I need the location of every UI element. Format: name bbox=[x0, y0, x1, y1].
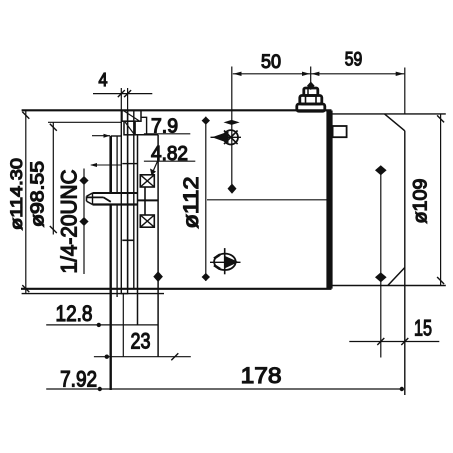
adapter plate bbox=[128, 110, 134, 288]
dim 4 extensions bbox=[120, 88, 122, 110]
dim 7.92 / 178 shared line bbox=[46, 388, 403, 390]
thick brush-plate bar bbox=[326, 111, 332, 289]
keyway ramp bbox=[104, 197, 111, 201]
dim ø112 line bbox=[205, 117, 207, 281]
shaft center stub inside tube bbox=[138, 199, 159, 201]
stud extension line bbox=[310, 67, 312, 83]
bottom extension: flange face bbox=[122, 294, 124, 357]
50 extension line through hole bbox=[231, 67, 233, 185]
bearing lower (X box) bbox=[140, 215, 154, 227]
rear housing top + ø109 top extension bbox=[333, 113, 446, 115]
rear housing top-right chamfer bbox=[385, 114, 405, 131]
shaft tip chamfers bbox=[87, 193, 93, 196]
terminal stud top bbox=[304, 88, 318, 96]
axis centerline bbox=[207, 199, 331, 201]
pilot boss face (thick) lower + extension bbox=[109, 206, 111, 391]
svg-text:15: 15 bbox=[414, 315, 432, 340]
bearing upper (X box) bbox=[140, 175, 154, 187]
dim 4.82 underline + leader bbox=[144, 160, 195, 162]
rear hole diamond upper bbox=[375, 165, 387, 175]
svg-text:23: 23 bbox=[131, 329, 151, 354]
svg-text:ø114.30: ø114.30 bbox=[7, 158, 26, 230]
counterbore step line lower bbox=[122, 239, 134, 241]
shaft top line bbox=[93, 192, 138, 194]
dim 15 line bbox=[349, 341, 439, 343]
counterbore step line upper bbox=[122, 163, 137, 165]
dim 50/59 line bbox=[233, 73, 405, 75]
boss second line lower bbox=[116, 206, 118, 298]
rear hole diamond lower bbox=[375, 272, 387, 282]
hub (bearing tube) top edge bbox=[136, 134, 159, 136]
dim ø114.30 line bbox=[25, 110, 27, 293]
pilot boss face (thick) upper bbox=[109, 136, 112, 192]
hatched block top (flange hub section) bbox=[122, 110, 141, 121]
shaft tip face bbox=[86, 196, 88, 201]
shaft chamfer edge bbox=[92, 193, 94, 205]
center mark diamond bbox=[228, 184, 237, 194]
flange plate bbox=[121, 110, 127, 293]
diamond on bearing tube wall bbox=[153, 271, 163, 282]
bearing tube right wall bbox=[157, 135, 159, 357]
svg-text:12.8: 12.8 bbox=[56, 301, 93, 326]
svg-text:1/4-20UNC: 1/4-20UNC bbox=[57, 169, 82, 273]
lower bolt hole symbol bbox=[214, 254, 236, 270]
svg-text:4: 4 bbox=[99, 70, 108, 90]
boss leader dash upper bbox=[92, 135, 110, 137]
terminal stud mid nut bbox=[300, 96, 322, 105]
terminal stud tip arrow bbox=[307, 82, 315, 91]
1/4-20UNC underline dimension line with diamonds bbox=[83, 169, 85, 275]
svg-text:50: 50 bbox=[261, 52, 281, 73]
motor body bottom line + left extension bbox=[21, 288, 332, 290]
step piece top bbox=[141, 117, 147, 135]
svg-text:178: 178 bbox=[241, 363, 282, 388]
terminal tab on bar bbox=[333, 126, 347, 137]
shaft bottom line bbox=[93, 203, 138, 205]
top line: ø114.30 extension + flange top + motor body top bbox=[22, 109, 332, 111]
dim 59 right extension bbox=[404, 68, 406, 114]
bearing tube left wall bbox=[137, 135, 139, 325]
flange plate bottom line + extension bbox=[22, 293, 164, 295]
svg-text:ø112: ø112 bbox=[180, 177, 203, 229]
rear bolt holes leader line bbox=[380, 167, 382, 358]
rear housing bottom-right chamfer bbox=[388, 268, 405, 286]
hatched block 2 bbox=[124, 121, 135, 135]
dim 4 line bbox=[93, 93, 152, 95]
rear housing bottom line + ø109 bottom extension bbox=[333, 285, 446, 287]
svg-text:ø98.55: ø98.55 bbox=[28, 161, 48, 227]
dim ø109 line bbox=[440, 114, 442, 286]
shaft keyway line bbox=[87, 196, 104, 198]
svg-text:59: 59 bbox=[345, 49, 363, 70]
tapped hole extension line bbox=[91, 164, 121, 166]
arrow diamond on body corner bbox=[224, 120, 240, 125]
svg-text:ø109: ø109 bbox=[411, 179, 432, 224]
dim ø98.55 line bbox=[52, 122, 54, 234]
dim 23 line bbox=[94, 356, 191, 358]
ø98.55 top extension bbox=[48, 121, 121, 123]
bearing inner race line bbox=[144, 187, 146, 215]
upper bolt hole symbol bbox=[224, 130, 238, 144]
terminal stud base bbox=[297, 104, 325, 111]
svg-text:7.92: 7.92 bbox=[60, 367, 97, 392]
dim 7.9 underline bbox=[144, 133, 190, 135]
boss horizontal top edge bbox=[111, 135, 122, 137]
boss second line upper bbox=[116, 136, 118, 192]
rear housing right edge + 178/15 extension bbox=[404, 131, 406, 395]
dim 12.8 line bbox=[46, 324, 158, 326]
